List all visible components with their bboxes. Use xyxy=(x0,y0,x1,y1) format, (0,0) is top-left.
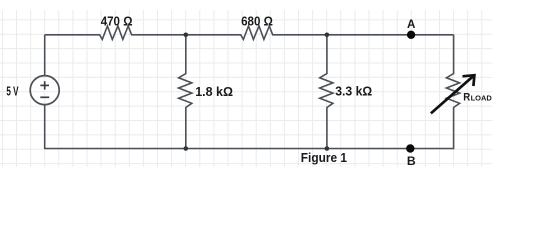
svg-text:Figure 1: Figure 1 xyxy=(301,150,347,165)
svg-text:680 Ω: 680 Ω xyxy=(241,14,273,28)
svg-text:470 Ω: 470 Ω xyxy=(101,14,133,28)
svg-text:LOAD: LOAD xyxy=(471,94,493,103)
svg-text:A: A xyxy=(407,18,416,31)
svg-text:B: B xyxy=(407,154,416,168)
svg-text:3.3 kΩ: 3.3 kΩ xyxy=(335,85,372,99)
svg-text:5 V: 5 V xyxy=(6,84,19,98)
svg-text:1.8 kΩ: 1.8 kΩ xyxy=(195,85,233,99)
svg-text:R: R xyxy=(463,92,470,104)
